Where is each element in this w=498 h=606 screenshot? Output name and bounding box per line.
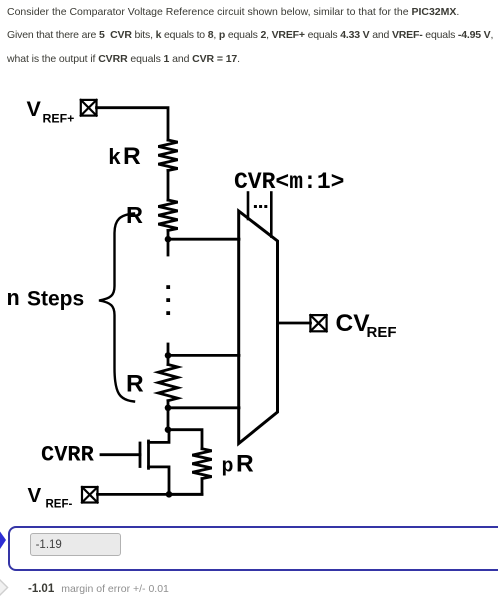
label VREF- [28, 484, 73, 511]
terminal X-box VREF- [82, 487, 98, 503]
svg-text:CV: CV [336, 310, 371, 337]
label VREF+ [27, 97, 75, 125]
svg-text:p: p [222, 456, 234, 479]
label n Steps [7, 287, 85, 312]
answer input field [30, 533, 122, 556]
terminal X-box CVREF [310, 315, 326, 331]
label CVRR [41, 442, 95, 467]
question text line 1 [7, 6, 459, 18]
answer input container box [8, 526, 498, 571]
svg-text:REF-: REF- [46, 499, 73, 511]
label CVR<m:1> [234, 169, 344, 195]
question text line 2 [7, 29, 493, 41]
wire select line 2 [270, 193, 273, 237]
wire kR to R1 [167, 171, 170, 201]
label CVREF [336, 310, 397, 341]
svg-text:REF: REF [367, 324, 397, 341]
svg-text:R: R [126, 371, 144, 398]
wire tap 1 to mux [168, 238, 239, 241]
mux U1 [239, 211, 278, 444]
wire mux output [278, 322, 311, 325]
label kR [108, 143, 141, 171]
next row marker chevron [0, 576, 12, 600]
node D junction dot [165, 426, 172, 433]
svg-text:k: k [108, 146, 121, 171]
svg-text:REF+: REF+ [43, 111, 75, 125]
node C junction dot [165, 405, 172, 412]
wire VREF+ to top rail [97, 108, 169, 140]
wire VREF- bottom rail [98, 493, 203, 496]
svg-text:CVR<m:1>: CVR<m:1> [234, 169, 344, 195]
node E junction dot [166, 491, 173, 498]
ladder ellipsis dots [166, 285, 170, 315]
label R1 [126, 202, 143, 228]
wire tap 2 to mux [168, 354, 239, 357]
resistor kR [158, 140, 177, 171]
svg-text:V: V [27, 97, 42, 121]
svg-text:Steps: Steps [27, 287, 84, 310]
terminal X-box VREF+ [81, 100, 97, 116]
resistor R1 [158, 200, 177, 231]
svg-text:R: R [236, 451, 254, 478]
svg-text:CVRR: CVRR [41, 442, 95, 467]
answer row marker arrow [0, 530, 12, 554]
correct answer text [28, 583, 169, 595]
wire pR bottom to node E [169, 479, 203, 495]
question text line 3 [7, 53, 240, 65]
brace n steps [99, 214, 134, 402]
resistor R2 [158, 365, 177, 401]
wire R2 to node C [167, 401, 170, 430]
resistor pR [192, 449, 211, 479]
node A junction dot [165, 236, 172, 243]
node B junction dot [165, 352, 172, 359]
label pR [222, 451, 255, 479]
transistor Q1 pass switch [140, 430, 169, 495]
svg-text:n: n [7, 287, 20, 312]
svg-text:V: V [28, 484, 42, 507]
wire R1 to node A [167, 231, 170, 256]
wire rail resume to node B [167, 344, 170, 365]
wire tap 3 to mux [168, 406, 239, 409]
label R2 [126, 371, 144, 398]
wire select line 1 [247, 193, 250, 220]
select ellipsis dots [254, 205, 267, 208]
wire CVRR gate lead [101, 453, 140, 456]
wire node D to pR branch [168, 430, 202, 449]
svg-text:R: R [123, 143, 141, 170]
